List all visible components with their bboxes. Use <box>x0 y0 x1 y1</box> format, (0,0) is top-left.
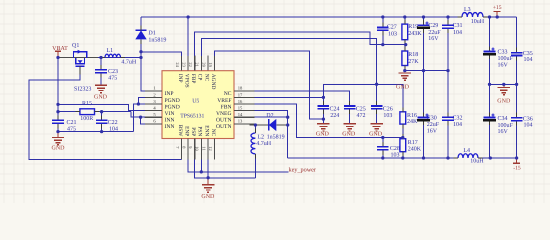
capacitor C22 <box>101 112 103 121</box>
wire D1 node to top pin INP <box>141 52 182 56</box>
svg-text:D1: D1 <box>148 31 155 37</box>
wire pin11 ENN drop <box>207 160 209 178</box>
wire VBAT rail to Q1 <box>58 57 98 59</box>
ground below C23 <box>95 84 107 86</box>
diode D2 1n5819 <box>250 124 269 126</box>
svg-text:GND: GND <box>52 145 66 151</box>
capacitor C33 100uF <box>489 17 491 51</box>
svg-text:14: 14 <box>238 112 243 117</box>
svg-text:FBN: FBN <box>221 104 232 110</box>
wire AGND line <box>215 51 324 119</box>
wire pin15 VNEG vertical to -15 bus <box>255 111 288 158</box>
svg-text:Q1: Q1 <box>72 43 79 49</box>
svg-text:R17: R17 <box>408 140 418 146</box>
svg-text:100R: 100R <box>80 116 93 122</box>
svg-text:C24: C24 <box>330 106 340 112</box>
IC U5 right pins 18-13 <box>234 90 255 92</box>
wire pin16 FBN to divider <box>255 104 403 138</box>
wire VPOS pin drop <box>187 17 189 56</box>
inductor L4 <box>458 154 478 158</box>
svg-text:L4: L4 <box>463 148 470 154</box>
svg-text:AGND: AGND <box>210 74 216 90</box>
svg-text:27K: 27K <box>408 59 419 65</box>
svg-text:243K: 243K <box>408 31 422 37</box>
svg-text:C32: C32 <box>453 116 463 122</box>
svg-text:240K: 240K <box>408 146 422 152</box>
inductor L1 <box>105 54 121 57</box>
wire D1 node down to pin1 INP <box>141 58 145 91</box>
svg-text:NC: NC <box>210 129 216 137</box>
wire GND bus C33 C35 <box>490 83 517 85</box>
diode D1 1n5819 <box>140 17 142 30</box>
svg-text:VIN: VIN <box>165 111 175 117</box>
wire pin10 PSN drop <box>200 160 202 172</box>
svg-text:C22: C22 <box>108 120 118 126</box>
wire -15 bus left of L4 <box>288 157 458 159</box>
svg-text:15: 15 <box>238 106 243 111</box>
svg-text:NC: NC <box>203 74 209 82</box>
IC U5 bottom pins 7-12 <box>181 139 183 160</box>
inductor L2 <box>251 133 255 154</box>
svg-text:C31: C31 <box>453 23 463 29</box>
ground below C25 <box>344 123 356 125</box>
wire L1 to D1 junction <box>121 57 142 59</box>
capacitor C28 103 <box>382 138 384 147</box>
svg-text:GND: GND <box>369 132 383 138</box>
capacitor C35 104 <box>516 17 518 53</box>
wire FBP line <box>195 32 406 56</box>
wire pin18 NC to C25 <box>255 91 350 106</box>
svg-text:C33: C33 <box>498 50 508 56</box>
svg-text:1n5819: 1n5819 <box>267 134 285 140</box>
capacitor C23 <box>100 58 102 70</box>
svg-text:C35: C35 <box>523 51 533 57</box>
svg-text:16: 16 <box>238 99 243 104</box>
power port -15 <box>516 158 518 163</box>
svg-text:24K: 24K <box>407 119 418 125</box>
svg-text:NC: NC <box>224 91 232 97</box>
wire pin9 PSP line <box>195 160 256 178</box>
capacitor C24 <box>322 109 324 124</box>
svg-text:21: 21 <box>195 62 200 66</box>
capacitor C32 104 <box>447 71 449 118</box>
power port +15 <box>496 11 498 17</box>
svg-text:100uF: 100uF <box>498 56 514 62</box>
wire INN line left segment <box>58 111 80 113</box>
svg-text:R15: R15 <box>82 101 92 107</box>
wire GND line C29 C30 C31 C32 <box>405 70 448 72</box>
svg-text:475: 475 <box>108 76 117 82</box>
capacitor C34 100uF <box>489 84 491 117</box>
svg-text:SI2323: SI2323 <box>74 86 91 92</box>
svg-text:L3: L3 <box>464 7 471 13</box>
ground below C21 <box>57 132 59 138</box>
svg-text:22uF: 22uF <box>428 30 441 36</box>
svg-text:PSN: PSN <box>197 126 203 136</box>
ground R18/C29/C31 <box>399 72 411 74</box>
IC U5 top pins 24-19 <box>181 56 183 71</box>
IC U5 TPS65131 body <box>162 71 234 139</box>
wire VBAT vertical <box>57 58 59 121</box>
svg-text:GND: GND <box>201 194 215 200</box>
svg-text:104: 104 <box>453 122 462 128</box>
svg-text:FBP: FBP <box>190 74 196 84</box>
svg-text:R16: R16 <box>407 113 417 119</box>
wire -15 bus right of L4 <box>478 157 517 159</box>
wire Q1 gate loop to pin7 BSW <box>29 66 182 160</box>
svg-text:D2: D2 <box>266 113 273 119</box>
svg-text:L2: L2 <box>257 134 264 140</box>
svg-text:17: 17 <box>238 92 243 97</box>
svg-text:10uH: 10uH <box>470 158 484 164</box>
svg-text:22: 22 <box>188 62 193 66</box>
wire FBN upper line A to R16 <box>323 84 402 112</box>
wire VIN line pin4 <box>58 104 145 110</box>
svg-text:13: 13 <box>238 119 243 124</box>
svg-text:4.7uH: 4.7uH <box>121 59 136 65</box>
svg-text:C28: C28 <box>390 146 400 152</box>
svg-text:103: 103 <box>383 113 392 119</box>
wire R15 to INN pins 5,6 <box>95 111 131 113</box>
wire GND line C21 C22 <box>58 131 134 133</box>
inductor L3 <box>462 13 483 17</box>
svg-text:C25: C25 <box>356 106 366 112</box>
ground below C26 <box>370 123 382 125</box>
svg-text:16V: 16V <box>428 36 439 42</box>
svg-text:10uH: 10uH <box>471 19 485 25</box>
ground below C24 <box>317 123 329 125</box>
svg-text:OUTN: OUTN <box>216 124 232 130</box>
svg-text:OUTN: OUTN <box>216 118 232 124</box>
svg-text:100uF: 100uF <box>498 123 514 129</box>
svg-text:VREF: VREF <box>217 98 231 104</box>
capacitor C25 <box>349 109 351 124</box>
svg-text:-15: -15 <box>513 166 521 172</box>
svg-text:L1: L1 <box>107 48 114 54</box>
svg-text:R18: R18 <box>408 52 418 58</box>
wire pin8 ENP key_power line <box>188 160 289 172</box>
svg-text:PGND: PGND <box>165 104 180 110</box>
svg-text:R19: R19 <box>408 24 418 30</box>
svg-text:PGND: PGND <box>165 98 180 104</box>
resistor R17 240K <box>400 139 406 152</box>
svg-text:16V: 16V <box>498 129 509 135</box>
resistor R19 243K <box>404 17 406 24</box>
svg-text:472: 472 <box>357 113 366 119</box>
svg-text:16V: 16V <box>498 63 509 69</box>
capacitor C27 <box>382 17 384 28</box>
wire INN jumper pin6 <box>141 117 146 124</box>
svg-text:104: 104 <box>524 123 533 129</box>
transistor Q1 SI2323 <box>73 52 86 58</box>
svg-text:C23: C23 <box>108 69 118 75</box>
svg-text:C21: C21 <box>67 120 77 126</box>
svg-text:BSW: BSW <box>177 125 183 138</box>
wire VPOS +15 rail <box>141 16 462 18</box>
wire L2 bottom to PSP line <box>254 154 256 178</box>
svg-text:ENP: ENP <box>184 126 190 136</box>
svg-text:C34: C34 <box>498 116 508 122</box>
svg-text:18: 18 <box>238 86 243 91</box>
svg-text:11: 11 <box>201 146 206 150</box>
wire R19-R18 <box>404 40 406 51</box>
capacitor C26 <box>376 109 378 124</box>
svg-text:CP: CP <box>197 74 203 81</box>
svg-text:104: 104 <box>453 30 462 36</box>
svg-text:U5: U5 <box>192 99 199 105</box>
svg-text:224: 224 <box>330 113 339 119</box>
svg-text:VNEG: VNEG <box>216 111 232 117</box>
svg-text:key_power: key_power <box>289 166 317 173</box>
wire PGND pins 2,3 jumper <box>138 97 145 104</box>
wire pin13 OUTN to L2/D2 node <box>254 124 257 133</box>
svg-text:104: 104 <box>109 126 118 132</box>
component pin stubs overlay <box>79 66 81 74</box>
wire CP line to C26 <box>201 39 376 107</box>
svg-text:ENN: ENN <box>203 125 209 136</box>
svg-text:INP: INP <box>165 91 174 97</box>
svg-text:INN: INN <box>165 118 175 124</box>
svg-text:VPOS: VPOS <box>184 74 190 88</box>
svg-text:C36: C36 <box>523 117 533 123</box>
wire +15 rail right of L3 <box>483 16 517 18</box>
svg-text:GND: GND <box>396 85 410 91</box>
svg-text:16V: 16V <box>427 129 438 135</box>
wire pin17 VREF to C24 <box>255 96 324 98</box>
capacitor C36 104 <box>516 84 518 117</box>
svg-text:TPS65131: TPS65131 <box>180 114 204 120</box>
svg-text:475: 475 <box>67 126 76 132</box>
svg-text:4.7uH: 4.7uH <box>256 141 272 147</box>
svg-text:INN: INN <box>165 124 175 130</box>
svg-text:GND: GND <box>342 132 356 138</box>
svg-text:C26: C26 <box>383 106 393 112</box>
resistor R18 27K <box>402 51 408 66</box>
ground C33/C35 <box>503 84 505 87</box>
capacitor C29 22uF <box>423 17 425 25</box>
svg-text:+15: +15 <box>493 5 502 11</box>
ground below IC <box>207 178 209 185</box>
svg-text:22uF: 22uF <box>427 122 440 128</box>
wire pin14 OUTN <box>255 116 288 118</box>
capacitor C21 <box>57 123 59 131</box>
svg-text:103: 103 <box>388 32 397 38</box>
svg-text:PSP: PSP <box>190 127 196 136</box>
IC U5 left pins 1-6 <box>145 90 163 92</box>
svg-text:104: 104 <box>524 57 533 63</box>
svg-text:GND: GND <box>316 132 330 138</box>
svg-text:GND: GND <box>94 94 108 100</box>
svg-text:GND: GND <box>497 99 511 105</box>
capacitor C31 104 <box>447 17 449 25</box>
svg-text:INP: INP <box>177 74 183 83</box>
wire R16-R17 <box>402 124 404 139</box>
capacitor C30 22uF <box>423 71 425 118</box>
junction dots overlay <box>56 56 59 59</box>
svg-text:12: 12 <box>208 146 213 150</box>
resistor R16 24K <box>400 112 406 124</box>
svg-text:1n5819: 1n5819 <box>148 37 166 43</box>
resistor R15 100R <box>80 109 95 115</box>
